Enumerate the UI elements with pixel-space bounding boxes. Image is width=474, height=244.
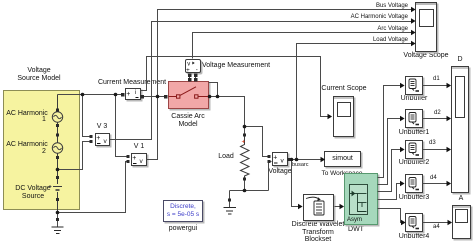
svg-text:+: + <box>242 139 246 146</box>
svg-text:+: + <box>96 135 100 142</box>
svg-text:+: + <box>126 91 130 98</box>
svg-text:+: + <box>186 67 190 74</box>
svg-text:v: v <box>104 138 108 145</box>
svg-text:-: - <box>196 68 198 74</box>
svg-text:i: i <box>135 90 136 96</box>
svg-text:+: + <box>273 155 277 162</box>
svg-text:v: v <box>281 158 285 165</box>
svg-text:+: + <box>132 155 136 162</box>
svg-text:v: v <box>140 158 144 165</box>
